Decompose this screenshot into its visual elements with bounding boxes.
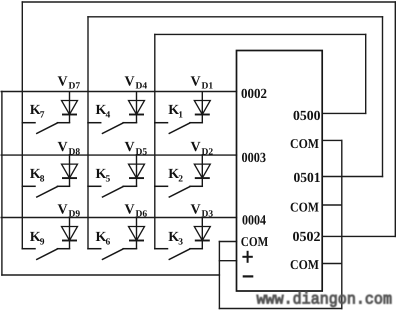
wire bottom return line [219, 308, 341, 310]
svg-text:D2: D2 [202, 147, 214, 157]
svg-text:D6: D6 [136, 210, 148, 220]
diode VD5 [129, 155, 145, 186]
wire column line 3 (key column K1/K2/K3, from inner loop top) [154, 35, 156, 249]
svg-text:0502: 0502 [293, 230, 321, 245]
diode VD8 [62, 155, 78, 186]
wire COM (mid right) to COM bus [322, 204, 342, 206]
wire column line 2 (key column K4/K5/K6, from middle loop top) [87, 17, 89, 249]
wire middle loop top (0501 to column 2) [88, 16, 383, 18]
switch K2 [155, 186, 203, 197]
svg-text:D8: D8 [69, 147, 81, 157]
wire left border (rail 1 down to bottom common line) [1, 92, 3, 276]
switch K3 [155, 249, 203, 260]
svg-text:D9: D9 [69, 210, 81, 220]
svg-text:D5: D5 [136, 147, 148, 157]
svg-text:D3: D3 [202, 210, 214, 220]
svg-text:0501: 0501 [294, 171, 321, 186]
svg-text:6: 6 [106, 238, 111, 248]
svg-text:V: V [125, 202, 135, 217]
wire inner loop top (0500 to column 3) [155, 33, 366, 35]
svg-text:V: V [58, 140, 68, 155]
svg-text:5: 5 [106, 175, 111, 185]
PLC box U1 [237, 51, 323, 292]
svg-text:7: 7 [40, 110, 45, 120]
svg-text:V: V [58, 75, 68, 90]
wire 0500 output to inner loop [322, 112, 366, 114]
wire inner loop right side (down to 0500 wire) [365, 34, 367, 113]
svg-text:D1: D1 [202, 82, 214, 92]
diode VD3 [194, 218, 210, 249]
wire outer loop right side (down to 0502 wire) [394, 2, 396, 236]
svg-text:COM: COM [290, 257, 319, 272]
diode VD7 [62, 92, 78, 123]
svg-text:0004: 0004 [242, 213, 266, 228]
diode VD4 [129, 92, 145, 123]
diode VD9 [62, 218, 78, 249]
svg-text:COM: COM [241, 234, 269, 249]
svg-text:COM: COM [290, 199, 319, 214]
svg-text:0002: 0002 [241, 87, 267, 102]
svg-text:COM: COM [290, 136, 319, 151]
svg-text:8: 8 [40, 175, 45, 185]
svg-text:D7: D7 [69, 82, 81, 92]
svg-text:9: 9 [40, 238, 45, 248]
wire 0501 output to middle loop [322, 176, 382, 178]
diode VD6 [129, 218, 145, 249]
switch K6 [88, 249, 137, 260]
svg-text:4: 4 [106, 110, 111, 120]
switch K9 [22, 249, 69, 260]
svg-text:V: V [191, 202, 201, 217]
wire row rail 1 (input 0002) [1, 91, 236, 93]
switch K4 [88, 123, 137, 134]
wire COM (top right) to COM bus [322, 139, 342, 141]
wire row rail 2 (input 0003) [1, 154, 236, 156]
svg-text:V: V [125, 140, 135, 155]
switch K8 [22, 186, 69, 197]
switch K7 [22, 123, 69, 134]
svg-text:V: V [58, 202, 68, 217]
pin label - (left) [243, 275, 254, 277]
svg-text:www.diangon.com: www.diangon.com [257, 291, 393, 309]
wire COM (left) terminal [219, 241, 236, 243]
svg-text:0003: 0003 [242, 151, 267, 166]
wire COM bus vertical (right side) [341, 140, 343, 308]
wire outer loop top (0502 to column 1) [22, 1, 395, 3]
diode VD2 [194, 155, 210, 186]
diode VD1 [194, 92, 210, 123]
wire COM (bottom right) to COM bus [322, 263, 342, 265]
svg-text:3: 3 [178, 238, 183, 248]
svg-text:0500: 0500 [293, 109, 321, 124]
pin label + (left) [242, 251, 252, 263]
wire 0502 output to outer loop [322, 235, 395, 237]
wire + terminal [219, 260, 236, 262]
svg-text:D4: D4 [136, 82, 148, 92]
svg-text:1: 1 [178, 110, 183, 120]
wire middle loop right side (down to 0501 wire) [382, 17, 384, 177]
wire bottom common line (left border to COM/+ vertical) [2, 274, 220, 276]
svg-text:V: V [191, 140, 201, 155]
switch K1 [155, 123, 203, 134]
svg-text:V: V [191, 75, 201, 90]
svg-text:2: 2 [178, 175, 183, 185]
switch K5 [88, 186, 137, 197]
svg-text:V: V [125, 75, 135, 90]
wire left supply vertical (COM/+ to bottom return) [218, 242, 220, 309]
wire row rail 3 (input 0004) [1, 217, 236, 219]
wire column line 1 (key column K7/K8/K9, from outer loop top) [21, 2, 23, 249]
